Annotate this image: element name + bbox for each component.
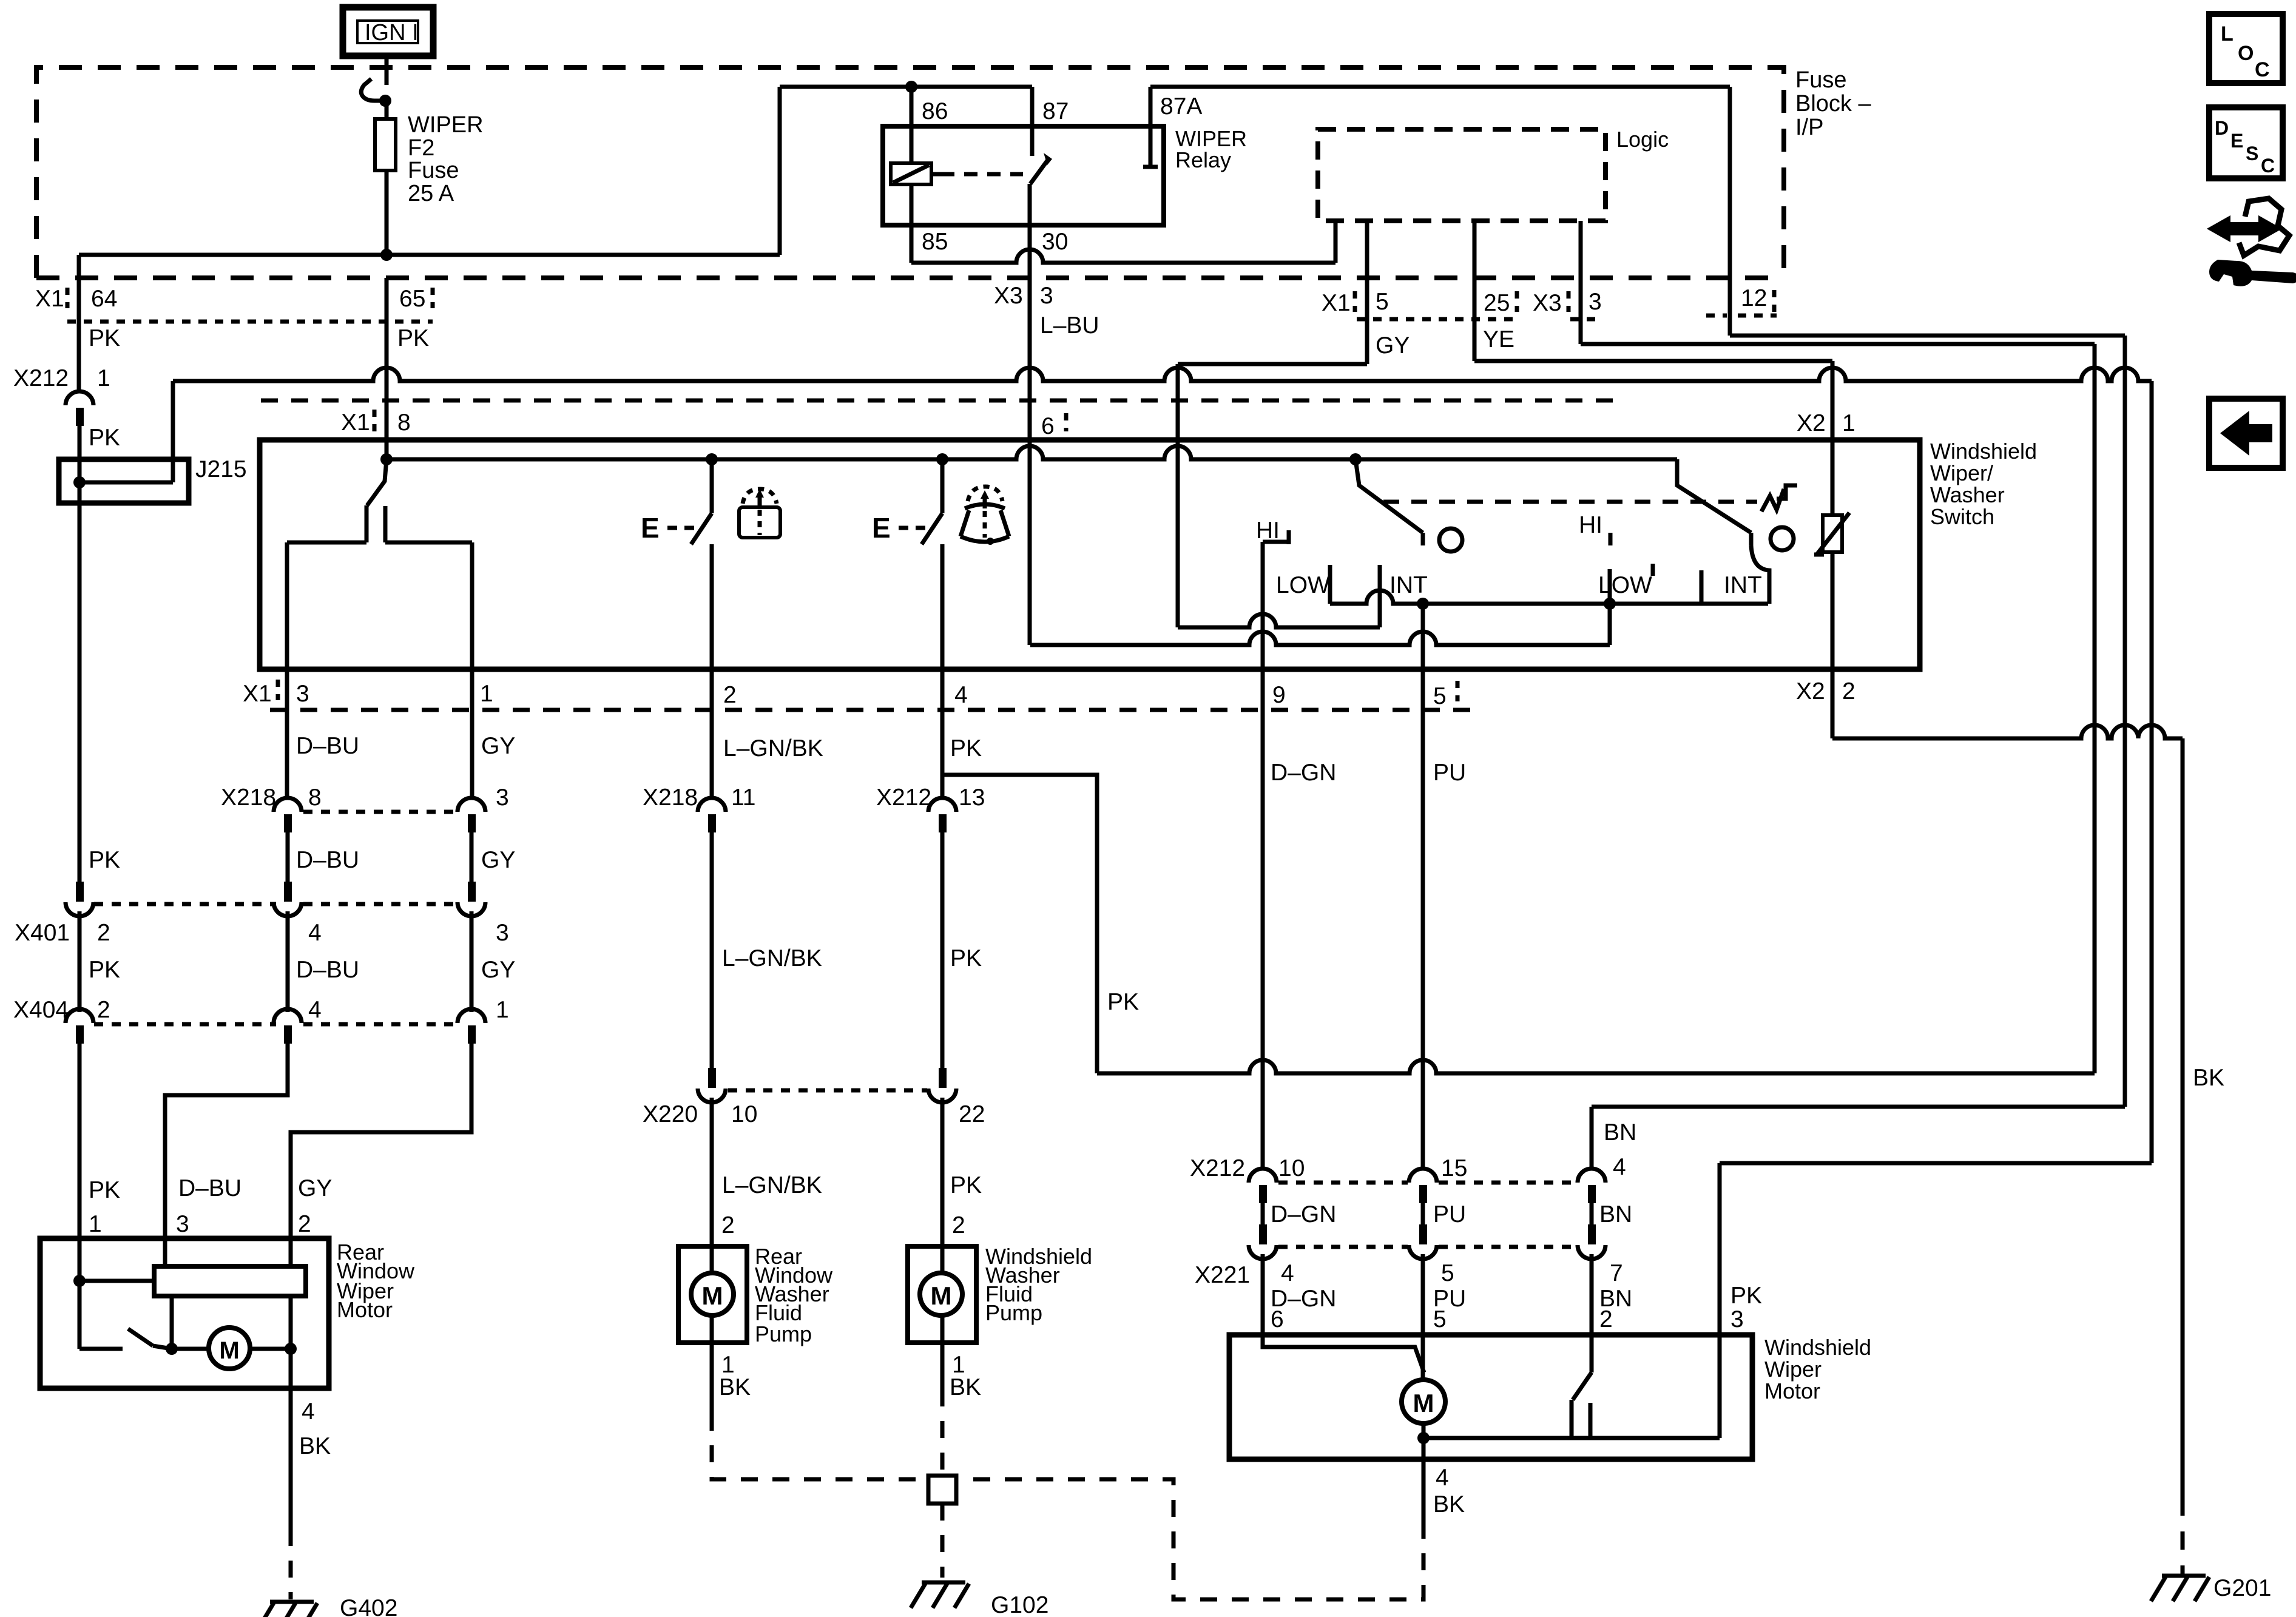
svg-text:IGN I: IGN I <box>365 20 419 46</box>
wire fuse to junction <box>385 170 389 255</box>
wire pin12 drop <box>1728 87 1732 336</box>
svg-text:YE: YE <box>1483 326 1514 353</box>
svg-text:11: 11 <box>731 785 756 811</box>
dashed X212 row <box>1278 1181 1408 1185</box>
svg-text:2: 2 <box>1842 678 1855 704</box>
wiper mode switch right arm <box>1677 459 1751 533</box>
svg-text:PK: PK <box>950 945 982 971</box>
svg-text:L–GN/BK: L–GN/BK <box>723 735 823 761</box>
svg-text:87: 87 <box>1042 98 1069 124</box>
connector X218 pin8 <box>274 798 302 812</box>
svg-text:G201: G201 <box>2213 1575 2271 1601</box>
rear motor GY internal <box>289 1238 293 1266</box>
svg-text:8: 8 <box>308 785 322 811</box>
ground G402 <box>270 1600 314 1604</box>
svg-text:X221: X221 <box>1195 1262 1250 1288</box>
wire X212-13 to X220 <box>940 832 945 1069</box>
windshield washer icon <box>961 504 1009 542</box>
dashed rear pump BK <box>712 1414 926 1479</box>
svg-text:30: 30 <box>1042 229 1068 255</box>
svg-text:PK: PK <box>89 1177 120 1203</box>
svg-text:BK: BK <box>1433 1491 1465 1517</box>
wire GY to X218-3 <box>470 669 474 798</box>
connector X221 pin4 <box>1259 1224 1267 1244</box>
wire X401-X404 GY <box>470 911 474 1012</box>
svg-text:1: 1 <box>496 997 509 1023</box>
wire y1769 PK link <box>1097 1060 2095 1073</box>
svg-text:X1: X1 <box>243 681 272 707</box>
windshield pump pin1 BK <box>940 1343 945 1389</box>
svg-text:D–BU: D–BU <box>296 957 359 983</box>
connector X212 pin1 <box>66 391 93 405</box>
svg-text:13: 13 <box>959 785 985 811</box>
svg-text:M: M <box>931 1281 952 1310</box>
svg-text:4: 4 <box>954 682 968 708</box>
svg-text:1: 1 <box>97 365 110 391</box>
wire pin5 drop <box>1421 604 1425 669</box>
wire relay 30 / L-BU / X1-6 <box>1028 184 1032 645</box>
svg-text:3: 3 <box>496 785 509 811</box>
svg-text:E: E <box>2230 130 2243 152</box>
wire L-GN/BK to X218-11 <box>710 669 714 798</box>
svg-text:2: 2 <box>721 1212 735 1238</box>
svg-text:LOW: LOW <box>1598 572 1652 598</box>
wire X212-4 to X221 <box>1590 1203 1594 1232</box>
connector X220 pin10 <box>708 1068 716 1088</box>
svg-text:PK: PK <box>89 425 120 451</box>
rear pump pin1 BK <box>710 1343 714 1414</box>
connector X401 pin3 <box>468 882 476 902</box>
svg-text:D–GN: D–GN <box>1271 1201 1336 1227</box>
fuse block I/P dashed outline <box>36 67 1784 278</box>
svg-text:X212: X212 <box>876 785 931 811</box>
wire switch to fuse <box>385 101 389 119</box>
wire y1824 BN link <box>1592 1105 2125 1109</box>
svg-text:D–BU: D–BU <box>296 733 359 759</box>
svg-text:GY: GY <box>481 847 515 873</box>
dashed X221 row <box>1278 1245 1408 1249</box>
wire IGN to switch <box>385 56 389 85</box>
rear washer pump box <box>678 1246 747 1343</box>
svg-text:E: E <box>641 512 660 544</box>
svg-text:M: M <box>702 1281 723 1310</box>
dashed windshield pump BK <box>940 1389 945 1476</box>
svg-text:O: O <box>2238 42 2254 65</box>
svg-text:85: 85 <box>922 229 948 255</box>
wire y1917 PK motor link <box>1720 1161 2152 1166</box>
wire X221-4 to motor <box>1261 1254 1265 1335</box>
icon back arrow box <box>2209 399 2283 468</box>
svg-text:Motor: Motor <box>337 1297 393 1322</box>
park switch contact right <box>1589 1403 1593 1438</box>
svg-text:5: 5 <box>1433 683 1447 709</box>
rear window wiper motor box <box>40 1238 329 1388</box>
svg-text:G402: G402 <box>340 1595 397 1617</box>
motor output wire <box>1422 1423 1426 1438</box>
wire PK main line y628 <box>173 368 2152 381</box>
svg-text:X1: X1 <box>1322 290 1351 316</box>
svg-text:PK: PK <box>1107 989 1139 1015</box>
park switch arm <box>1590 1335 1594 1372</box>
svg-text:9: 9 <box>1272 682 1286 708</box>
wire relay 87A to fuse pin12 <box>1150 85 1730 89</box>
wire logic 25/X3-3 YE to X2-1 <box>1473 221 1477 361</box>
wire drop to J215 splice feed <box>77 255 81 391</box>
rear motor ground lead <box>289 1349 293 1388</box>
motor M circle <box>1402 1380 1445 1423</box>
svg-text:X212: X212 <box>1190 1155 1245 1181</box>
connector row X1-8 <box>261 399 1614 403</box>
svg-text:Motor: Motor <box>1764 1379 1820 1403</box>
wire PU X1-5 to X212-15 <box>1421 669 1425 1169</box>
svg-text:BK: BK <box>950 1374 981 1400</box>
svg-text:10: 10 <box>1278 1155 1305 1181</box>
wiper mode switch left arm <box>1356 459 1423 533</box>
svg-text:D: D <box>2215 117 2229 139</box>
relay pin86 wire <box>910 87 914 163</box>
svg-text:GY: GY <box>298 1175 332 1201</box>
rear washer icon <box>739 507 780 538</box>
connector X218 pin11 <box>698 798 726 812</box>
rear pump M <box>691 1273 734 1315</box>
washer switch front <box>940 459 945 513</box>
rear motor resistor plate <box>154 1266 306 1296</box>
connector X404 pin4 <box>274 1009 302 1023</box>
svg-text:PK: PK <box>89 847 120 873</box>
wire GY to INT y1034 <box>1178 614 1380 627</box>
svg-text:PK: PK <box>89 325 120 351</box>
svg-text:PK: PK <box>89 957 120 983</box>
icon LOC box <box>2209 14 2283 83</box>
svg-text:4: 4 <box>302 1399 315 1425</box>
connector X401 pin2 <box>76 882 84 902</box>
svg-text:Windshield: Windshield <box>1764 1335 1871 1360</box>
relay coil dashed link <box>941 172 1023 177</box>
wire logic X1-5 GY <box>1365 221 1369 364</box>
svg-text:D–GN: D–GN <box>1271 760 1336 786</box>
svg-text:LOW: LOW <box>1276 572 1330 598</box>
svg-text:2: 2 <box>1599 1306 1613 1332</box>
svg-text:Wiper/: Wiper/ <box>1930 461 1993 485</box>
wire X218-11 to X220 <box>710 832 714 1069</box>
svg-text:WIPER: WIPER <box>408 112 484 138</box>
svg-text:Logic: Logic <box>1616 127 1669 152</box>
svg-text:BK: BK <box>719 1374 751 1400</box>
svg-text:L–GN/BK: L–GN/BK <box>722 945 822 971</box>
svg-text:4: 4 <box>308 997 322 1023</box>
svg-text:PK: PK <box>950 735 982 761</box>
connector X221 pin7 <box>1588 1224 1596 1244</box>
svg-text:Switch: Switch <box>1930 504 1994 529</box>
svg-text:S: S <box>2246 143 2258 164</box>
icon tool arrow <box>2210 218 2278 239</box>
windshield wiper motor box <box>1229 1335 1752 1459</box>
dashed splice to G102 <box>940 1504 945 1578</box>
svg-text:4: 4 <box>1436 1465 1449 1491</box>
svg-text:INT: INT <box>1724 572 1762 598</box>
svg-text:PK: PK <box>950 1172 982 1198</box>
svg-text:E: E <box>872 512 891 544</box>
connector X212 pin13 <box>928 798 956 812</box>
svg-text:4: 4 <box>1281 1260 1294 1286</box>
wire LOW bus y995 <box>1330 590 1768 604</box>
svg-text:L: L <box>2221 22 2234 46</box>
svg-text:M: M <box>219 1337 239 1364</box>
connector X221 pin5 <box>1419 1224 1427 1244</box>
svg-text:6: 6 <box>1271 1306 1284 1332</box>
fuse F2 WIPER body <box>375 119 396 170</box>
svg-text:86: 86 <box>922 98 948 124</box>
relay pin87A contact <box>1149 87 1153 167</box>
wire X221-7 to motor <box>1590 1254 1594 1335</box>
rear motor D-BU internal <box>163 1238 167 1266</box>
svg-text:3: 3 <box>1730 1306 1744 1332</box>
svg-text:INT: INT <box>1389 572 1428 598</box>
wire logic pin drop <box>1334 221 1338 263</box>
connector X220 pin22 <box>939 1068 947 1088</box>
wire v3502 BN 87A <box>2123 336 2127 1107</box>
wire PK line drop into J215 <box>171 381 175 482</box>
motor ground wire <box>1422 1438 1426 1459</box>
logic dashed box <box>1318 129 1606 221</box>
rear motor M leads <box>172 1347 209 1351</box>
park switch contact left <box>1570 1400 1574 1438</box>
svg-text:2: 2 <box>952 1212 965 1238</box>
wire X218-3 to X401-3 <box>470 832 474 883</box>
svg-text:GY: GY <box>481 733 515 759</box>
svg-text:X401: X401 <box>15 920 70 946</box>
rear motor switch arm <box>128 1329 153 1346</box>
svg-text:Windshield: Windshield <box>1930 439 2037 464</box>
mech link zigzag <box>1761 485 1797 511</box>
wire X220-22 to pump <box>940 1098 945 1246</box>
svg-text:Block –: Block – <box>1795 91 1871 116</box>
svg-text:X2: X2 <box>1796 678 1825 704</box>
svg-text:25: 25 <box>1484 290 1510 316</box>
icon DESC box <box>2209 107 2283 178</box>
relay pin87 wire <box>1030 87 1035 156</box>
motor D-GN internal <box>1263 1335 1424 1372</box>
svg-text:5: 5 <box>1433 1306 1447 1332</box>
svg-text:D–BU: D–BU <box>296 847 359 873</box>
svg-text:HI: HI <box>1579 512 1602 538</box>
svg-text:2: 2 <box>723 682 737 708</box>
svg-text:2: 2 <box>298 1211 311 1237</box>
mech link dashed <box>1383 500 1757 504</box>
wire PK branch to right <box>944 775 1097 1073</box>
ground splice box <box>928 1476 956 1504</box>
svg-text:1: 1 <box>1842 410 1855 436</box>
left arm off contact <box>1439 528 1462 552</box>
svg-text:3: 3 <box>496 920 509 946</box>
svg-text:G102: G102 <box>991 1592 1048 1617</box>
wire J215 to X401 <box>78 503 82 883</box>
washer switch rear <box>710 459 714 513</box>
wire D-BU to X218 <box>285 669 289 798</box>
svg-text:Wiper: Wiper <box>1764 1357 1822 1382</box>
wire y420 feed rail <box>79 253 780 257</box>
right arm pivot arc <box>1751 545 1769 604</box>
dashed X218 row <box>303 810 456 814</box>
wire LOW-link down y1063 <box>1608 569 1612 645</box>
connector row X1 bottom <box>270 708 1481 712</box>
svg-text:65: 65 <box>399 286 425 312</box>
wire y143 to relay <box>780 85 1032 89</box>
relay coil <box>891 163 931 184</box>
dashed BK route <box>959 1479 1423 1599</box>
ground G201 <box>2162 1574 2206 1578</box>
svg-text:6: 6 <box>1041 413 1055 439</box>
wire X218-8 to X401-4 <box>286 832 290 883</box>
svg-text:Pump: Pump <box>985 1300 1042 1325</box>
wire X212-1 to J215 <box>78 426 82 459</box>
svg-text:2: 2 <box>97 920 110 946</box>
connector X212 pin10 <box>1249 1169 1277 1183</box>
svg-text:L–GN/BK: L–GN/BK <box>722 1172 822 1198</box>
svg-text:X3: X3 <box>994 283 1023 309</box>
wire X212-15 to X221 <box>1421 1203 1425 1232</box>
svg-text:PU: PU <box>1433 1201 1466 1227</box>
wire X221-5 to motor <box>1421 1254 1425 1335</box>
relay switch arm <box>1030 159 1048 184</box>
svg-text:X1: X1 <box>35 286 64 312</box>
right arm off contact <box>1771 527 1794 550</box>
dashed connector line X404 <box>94 1022 276 1027</box>
switch1 arm <box>367 459 387 505</box>
svg-text:J215: J215 <box>195 456 247 482</box>
wire J215 internal <box>79 481 173 485</box>
svg-text:Fuse: Fuse <box>408 158 459 183</box>
svg-text:BK: BK <box>299 1433 331 1459</box>
dashed X220 row <box>728 1089 927 1093</box>
rear motor PK internal <box>78 1238 82 1349</box>
dashed to G201 <box>2181 1497 2185 1574</box>
dashed BK rear <box>289 1529 293 1599</box>
connector X218 pin3 <box>458 798 485 812</box>
wire X404-1 GY jog <box>291 1044 471 1238</box>
svg-text:3: 3 <box>176 1211 189 1237</box>
wire X2-2 to G201 route <box>1831 669 1835 738</box>
svg-text:Washer: Washer <box>1930 482 2005 507</box>
windshield pump M <box>920 1273 962 1315</box>
wire v3546 PK motor <box>2150 381 2154 1163</box>
wire X401-X404 D-BU <box>286 911 290 1012</box>
svg-text:BN: BN <box>1604 1119 1636 1146</box>
wire rail up at 1285 <box>778 87 782 255</box>
connector X212 pin4 <box>1578 1169 1606 1183</box>
wire v3452 PK <box>2093 344 2097 1073</box>
wire PK motor drop <box>1718 1163 1722 1438</box>
svg-text:BN: BN <box>1599 1201 1632 1227</box>
svg-text:PK: PK <box>1730 1283 1762 1309</box>
svg-text:3: 3 <box>1589 289 1602 315</box>
windshield wiper washer switch box <box>260 440 1920 669</box>
svg-text:3: 3 <box>296 681 309 707</box>
relay box <box>883 126 1164 225</box>
rear pump wires <box>710 1246 714 1273</box>
svg-text:L–BU: L–BU <box>1040 312 1099 339</box>
svg-text:X3: X3 <box>1533 290 1562 316</box>
svg-text:X218: X218 <box>221 785 276 811</box>
svg-text:C: C <box>2261 155 2275 177</box>
windshield pump wires <box>940 1246 945 1273</box>
ground G102 <box>922 1581 965 1585</box>
wire PK to X212-13 <box>940 669 945 798</box>
svg-text:5: 5 <box>1376 289 1389 315</box>
svg-text:Relay: Relay <box>1175 147 1231 172</box>
svg-text:15: 15 <box>1441 1155 1467 1181</box>
splice J215 box <box>59 459 189 503</box>
svg-text:12: 12 <box>1741 285 1767 311</box>
wire X401-X404 PK <box>78 911 82 1012</box>
svg-text:4: 4 <box>308 920 322 946</box>
svg-text:5: 5 <box>1441 1260 1454 1286</box>
wire X404-4 D-BU jog <box>165 1044 288 1238</box>
INT contact left <box>1378 565 1382 627</box>
svg-text:10: 10 <box>731 1101 757 1127</box>
connector X212 pin15 <box>1409 1169 1437 1183</box>
LOW contact left <box>1328 565 1332 604</box>
svg-text:X1: X1 <box>341 410 370 436</box>
wire y757 bus <box>387 446 1677 459</box>
svg-text:PU: PU <box>1433 760 1466 786</box>
switch1 left leg <box>287 541 366 545</box>
windshield washer pump box <box>908 1246 976 1343</box>
wire relay 85 to logic <box>911 249 1335 263</box>
svg-text:1: 1 <box>89 1211 102 1237</box>
svg-text:C: C <box>2255 58 2270 81</box>
connector X404 pin2 <box>66 1009 93 1023</box>
svg-text:8: 8 <box>397 410 411 436</box>
rear motor M circle <box>209 1328 250 1369</box>
svg-text:X2: X2 <box>1797 410 1826 436</box>
svg-text:25 A: 25 A <box>408 181 454 206</box>
svg-text:Fuse: Fuse <box>1795 67 1846 93</box>
INT contact right <box>1700 570 1704 604</box>
wire X404 to rear motor PK <box>78 1044 82 1238</box>
svg-text:3: 3 <box>1040 283 1053 309</box>
delay pot X2-1 <box>1831 440 1835 669</box>
svg-text:X404: X404 <box>13 997 69 1023</box>
svg-text:7: 7 <box>1610 1260 1623 1286</box>
svg-text:4: 4 <box>1613 1154 1626 1180</box>
svg-text:X218: X218 <box>643 785 698 811</box>
connector X404 pin1 <box>458 1009 485 1023</box>
wire D-GN X1-9 to X212-10 <box>1261 669 1265 1169</box>
svg-text:22: 22 <box>959 1101 985 1127</box>
wire X220-10 to pump <box>710 1098 714 1246</box>
svg-text:1: 1 <box>480 681 493 707</box>
svg-text:GY: GY <box>481 957 515 983</box>
svg-text:Pump: Pump <box>755 1322 812 1346</box>
connector X401 pin4 <box>284 882 292 902</box>
svg-text:F2: F2 <box>408 135 434 161</box>
svg-text:PK: PK <box>397 325 429 351</box>
svg-text:I/P: I/P <box>1795 115 1823 140</box>
wire BK rear <box>289 1388 293 1529</box>
wire J215 through <box>78 459 82 503</box>
svg-text:2: 2 <box>97 997 110 1023</box>
svg-text:GY: GY <box>1376 333 1410 359</box>
motor PU internal <box>1421 1335 1425 1380</box>
svg-text:X220: X220 <box>643 1101 698 1127</box>
HI contact left <box>1287 530 1291 544</box>
wire X2-1 drop <box>1831 361 1835 440</box>
svg-text:M: M <box>1413 1389 1434 1417</box>
wire BK below motor <box>1422 1459 1426 1522</box>
svg-text:X212: X212 <box>13 365 69 391</box>
svg-text:64: 64 <box>91 286 117 312</box>
